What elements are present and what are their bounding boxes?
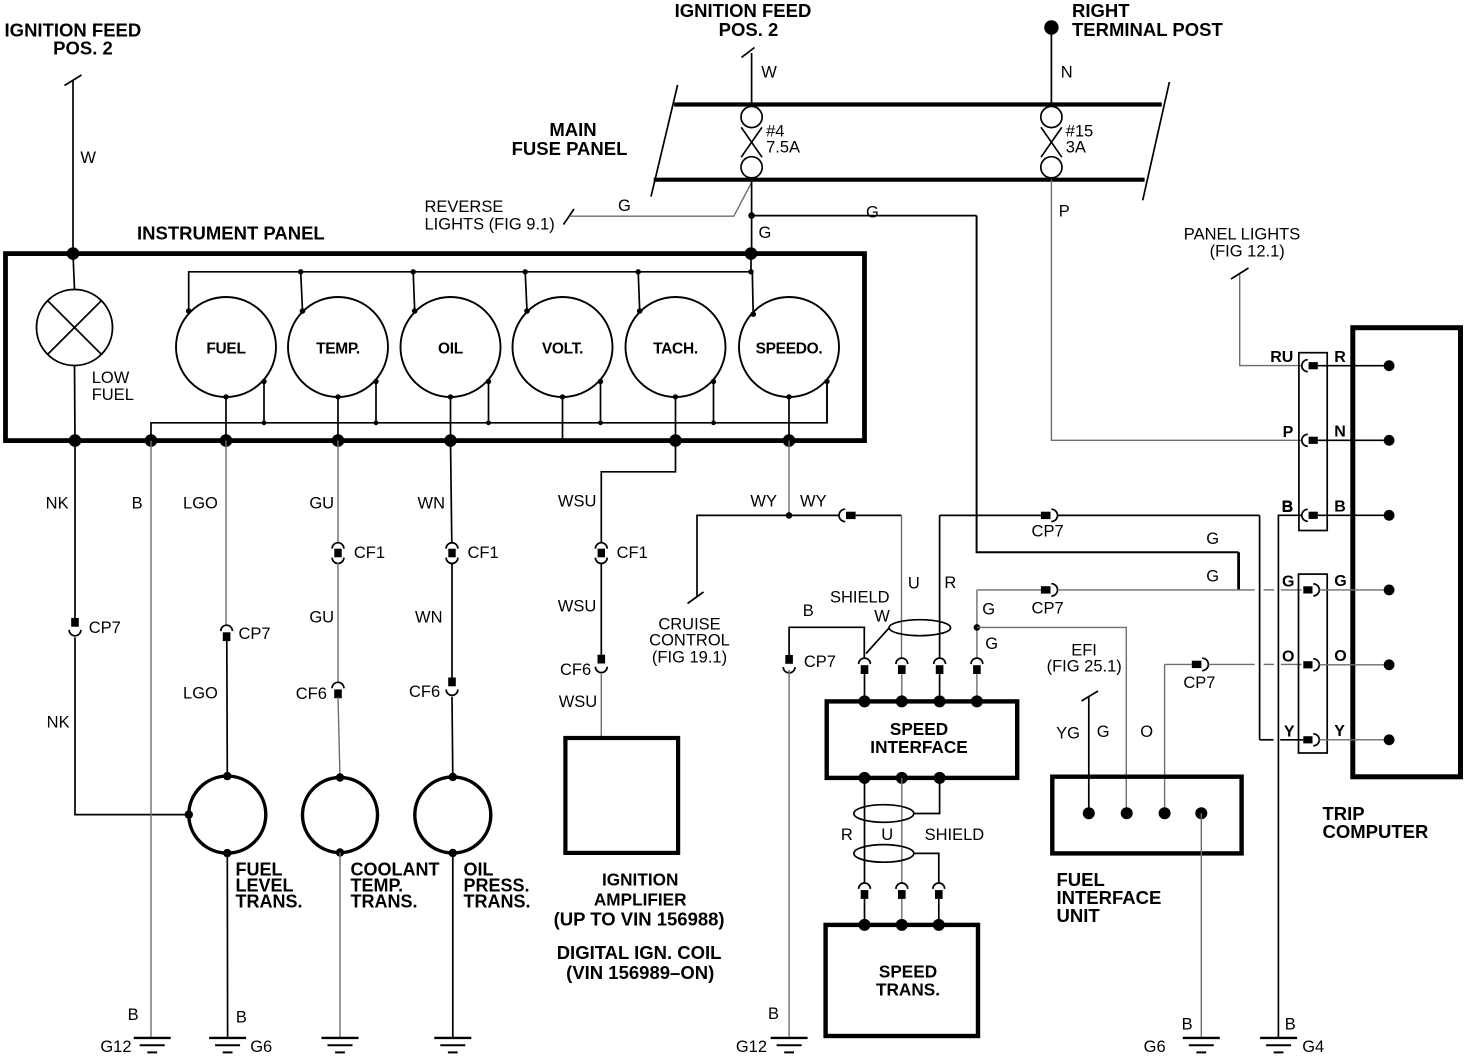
svg-text:TEMP.: TEMP. [316,340,360,357]
connector Y/Y row [1303,736,1312,743]
wire WY to speed interface U [856,514,902,516]
svg-text:U: U [881,826,893,844]
svg-text:PANEL LIGHTS: PANEL LIGHTS [1184,225,1300,243]
svg-text:SHIELD: SHIELD [830,588,890,606]
svg-text:B: B [1334,499,1346,516]
wire W shield drain [866,628,889,654]
oil press transducer pins [449,773,457,781]
wire WY speedo down [788,441,790,516]
box FUEL INTERFACE UNIT [1052,777,1241,854]
connector speed trans pin 2 [896,883,908,889]
wire G return to speed interface [977,589,1041,591]
svg-text:(FIG 25.1): (FIG 25.1) [1047,657,1122,675]
connector block upper (RU P B) [1299,353,1327,531]
svg-text:SPEED: SPEED [879,961,937,981]
svg-text:CP7: CP7 [1183,674,1215,692]
ground (oil press) [434,1037,471,1039]
connector CP7 on WY [789,514,839,516]
wire B fuel interface to ground G6 [1200,813,1202,1037]
connector CF6 on GU [332,682,344,688]
svg-text:B: B [236,1009,247,1027]
connector P/N row [1302,434,1308,446]
svg-text:U: U [908,575,920,593]
wire G down to junction [976,590,978,658]
wires connectors to speed trans pins [864,899,866,925]
connector CP7 on B [785,655,793,664]
svg-text:G12: G12 [736,1038,767,1056]
fuel level transducer pins [223,772,231,780]
gauge OIL [401,297,501,397]
connector pin 1 speed interface [859,658,871,664]
svg-text:B: B [1282,499,1294,516]
connector RU/R row [1302,360,1308,372]
wire lamp bottom to panel bus [74,366,77,441]
svg-text:FUEL: FUEL [206,340,245,357]
svg-text:CF6: CF6 [296,685,327,703]
svg-text:TACH.: TACH. [653,340,698,357]
box IGNITION AMPLIFIER [565,738,678,853]
wire W to fuse #4 [751,53,753,105]
svg-text:G6: G6 [1144,1038,1166,1056]
svg-text:POS. 2: POS. 2 [53,38,113,59]
gauge FUEL [176,297,276,397]
wire oil press transducer to ground [452,853,454,1037]
svg-text:LGO: LGO [183,494,218,512]
junction on G below fuse #4 [748,212,755,219]
svg-text:WSU: WSU [558,493,597,511]
wire shield pin 3 to ellipse [914,778,940,814]
svg-text:LOW: LOW [92,369,130,387]
wire B panel to ground G12 [150,441,152,1037]
fuel interface unit pins [1083,807,1095,819]
wire B trip computer to ground G4 [1278,515,1301,1037]
ground G12 (left) [134,1037,171,1039]
fuse #15 3A [1041,106,1062,177]
svg-text:DIGITAL IGN. COIL: DIGITAL IGN. COIL [557,942,722,963]
svg-text:B: B [132,494,143,512]
svg-text:B: B [1285,1016,1296,1034]
gauge bottom pins [223,394,228,399]
svg-text:(FIG 12.1): (FIG 12.1) [1210,243,1285,261]
speed interface bottom pins [859,772,871,784]
shield ellipse (mid) [854,805,914,823]
wire LGO fuel gauge sender [225,441,227,626]
lamp LOW FUEL [37,290,113,366]
svg-text:OIL: OIL [438,340,463,357]
wire R speed interface to trip computer Y [939,515,941,658]
wire LGO to transducer [226,640,229,776]
svg-text:NK: NK [47,714,70,732]
shield ellipse (lower) [854,845,914,863]
wire WN oil pressure sender [451,441,452,543]
gauge TEMP [288,297,388,397]
fuse panel top rail [674,102,1162,106]
svg-text:MAIN: MAIN [549,119,596,140]
ground (coolant temp) [322,1037,359,1039]
wire R to speed trans [864,778,866,883]
junction G split [974,624,981,631]
connector pin 4 speed interface [971,658,983,664]
svg-text:TERMINAL POST: TERMINAL POST [1072,19,1223,40]
svg-text:W: W [80,149,96,167]
gauge SPEEDO [739,297,839,397]
wire U to speed trans [901,778,903,883]
svg-text:CONTROL: CONTROL [649,631,730,649]
connector speed trans pin 3 [933,883,945,889]
off-page tick (ignition feed fuse) [742,48,755,58]
svg-text:WY: WY [800,493,827,511]
svg-text:CP7: CP7 [89,619,121,637]
svg-text:R: R [841,826,853,844]
wire G to reverse lights [571,183,752,216]
wire WN middle [451,563,453,678]
fuse panel bottom rail [654,178,1145,182]
ground G6 (left) [209,1037,246,1039]
svg-text:N: N [1061,64,1073,82]
svg-text:CF1: CF1 [617,544,648,562]
connector CF6 on WN [448,678,456,687]
svg-text:AMPLIFIER: AMPLIFIER [594,889,687,909]
wire B to speed interface [789,627,864,658]
svg-text:B: B [768,1005,779,1023]
svg-text:WN: WN [415,609,443,627]
wire N terminal post to fuse #15 [1050,33,1052,105]
off-page tick (reverse lights) [564,209,575,225]
connector pin 3 speed interface [934,658,946,664]
wire G fuse #4 down to instrument panel [751,180,753,254]
wire WSU tach to ignition amplifier [601,441,675,543]
wire O with crossover breaks [1208,663,1254,665]
wire R continues to Y descent [1058,514,1260,516]
connector CP7 on R wire [1041,512,1051,519]
connector CP7 on NK [71,618,79,627]
wire G branch to fuel interface unit [977,627,1126,813]
gauge feed bus inside panel [189,272,751,311]
junction WY [786,512,793,519]
off-page tick (EFI) [1082,691,1099,701]
off-page tick (panel lights) [1231,268,1249,279]
svg-text:TRANS.: TRANS. [236,892,303,912]
ground G12 (speed trans) [771,1037,808,1039]
wire lamp top feed [73,254,75,290]
connector CF1 on WSU [595,543,607,549]
svg-text:TRANS.: TRANS. [876,979,940,999]
svg-text:REVERSE: REVERSE [425,198,504,216]
svg-text:G: G [985,635,998,653]
wire B to ground G12 right [788,670,790,1037]
svg-text:B: B [128,1006,139,1024]
svg-text:CP7: CP7 [1032,600,1064,618]
wire O fuel interface to connector [1164,664,1166,813]
wire NK to fuel level transducer [75,637,186,814]
svg-text:GU: GU [309,494,334,512]
wire WY to cruise control [697,515,789,597]
svg-text:LGO: LGO [183,685,218,703]
svg-text:G6: G6 [250,1038,272,1056]
wire W ignition feed to instrument panel [72,81,74,254]
wire RU panel lights to connector [1240,275,1302,366]
gauge sender bus inside panel [151,382,827,441]
svg-text:GU: GU [309,609,334,627]
svg-text:CF6: CF6 [560,661,591,679]
connector block lower (G O Y) [1299,574,1328,753]
svg-text:N: N [1334,424,1346,441]
fuse panel left slant [651,85,678,197]
transducer FUEL LEVEL TRANS. [189,776,266,853]
connector CP7 on LGO [221,625,233,631]
svg-text:P: P [1059,203,1070,221]
svg-text:WSU: WSU [558,598,597,616]
wires connectors to speed interface pins [864,674,866,701]
connector B/B row [1302,509,1308,521]
svg-text:7.5A: 7.5A [766,138,800,156]
wire GU to transducer [338,697,340,777]
svg-text:UNIT: UNIT [1057,905,1101,926]
wire G branch right from fuse #4 [752,215,977,217]
gauge TACH [626,297,726,397]
svg-text:G: G [866,204,879,222]
svg-text:VOLT.: VOLT. [542,340,583,357]
junction G feed on panel edge [745,247,758,260]
svg-text:WN: WN [418,494,446,512]
svg-text:FUEL: FUEL [92,386,134,404]
svg-text:IGNITION: IGNITION [602,869,678,889]
svg-text:IGNITION FEED: IGNITION FEED [675,0,812,21]
gauge feed drop arrows [301,272,303,311]
svg-text:RIGHT: RIGHT [1072,0,1130,21]
ground G6 (fuel interface) [1183,1037,1220,1039]
coolant temp transducer pins [336,773,344,781]
svg-text:COMPUTER: COMPUTER [1323,821,1429,842]
svg-text:G: G [982,601,995,619]
svg-text:POS. 2: POS. 2 [719,19,779,40]
wire NK low fuel sender [74,441,76,618]
speed trans top pins [859,919,871,931]
svg-text:LIGHTS (FIG 9.1): LIGHTS (FIG 9.1) [425,216,555,234]
svg-text:P: P [1283,424,1294,441]
connector CF6 on WSU [598,655,606,664]
transducer COOLANT TEMP TRANS. [303,778,378,853]
svg-text:FUSE PANEL: FUSE PANEL [512,138,628,159]
box SPEED INTERFACE [827,701,1018,778]
svg-text:CP7: CP7 [1032,523,1064,541]
svg-text:G: G [1206,568,1219,586]
shield ellipse (upper) [889,620,950,636]
wire YG efi to fuel interface unit [1088,698,1090,814]
wire coolant temp transducer to ground [339,853,341,1037]
svg-text:YG: YG [1056,725,1080,743]
connector CP7 on G wire [1041,586,1051,593]
connector O/O row [1303,661,1312,668]
svg-text:TRANS.: TRANS. [351,892,418,912]
wire G with crossover breaks [1058,589,1255,591]
connector CF1 on GU [332,543,344,549]
wire Y into connector (break at crossing) [1260,739,1274,741]
svg-text:SPEEDO.: SPEEDO. [756,340,823,357]
wire G long run down right side [977,216,1239,553]
svg-text:CP7: CP7 [239,625,271,643]
svg-text:Y: Y [1334,723,1345,740]
svg-text:G: G [1282,573,1294,590]
gauge right pin drops [263,382,265,423]
svg-text:INSTRUMENT PANEL: INSTRUMENT PANEL [137,222,325,243]
wire WSU lower [600,674,602,738]
gauge VOLT [513,297,613,397]
speed interface top pins [859,695,871,707]
svg-text:TRANS.: TRANS. [464,892,531,912]
svg-text:SPEED: SPEED [890,719,948,739]
connector CF1 on WN [446,543,458,549]
wire shield ellipse to speed trans [914,853,939,883]
svg-text:Y: Y [1284,723,1295,740]
connector speed trans pin 1 [859,883,871,889]
wire B fuel level transducer to ground G6 [226,853,228,1037]
svg-text:CF1: CF1 [468,544,499,562]
wire GU middle [337,563,339,683]
fuse panel right slant [1143,82,1170,200]
svg-text:RU: RU [1270,349,1293,366]
ground G4 [1260,1037,1297,1039]
svg-text:O: O [1140,723,1153,741]
wire GU coolant temp sender [337,441,339,543]
connector G/G row [1303,586,1312,593]
svg-text:WSU: WSU [559,693,598,711]
off-page tick (ignition feed left) [65,75,82,86]
wire WN to transducer [451,697,454,777]
svg-text:(VIN 156989–ON): (VIN 156989–ON) [566,962,714,983]
svg-text:SHIELD: SHIELD [925,826,985,844]
svg-text:INTERFACE: INTERFACE [870,737,967,757]
wire WSU middle [600,563,602,655]
instrument panel box [6,254,865,441]
svg-text:NK: NK [46,494,69,512]
off-page tick (cruise control) [688,592,704,604]
svg-text:(FIG 19.1): (FIG 19.1) [652,648,727,666]
svg-text:B: B [1182,1016,1193,1034]
connector CP7 on O wire [1192,661,1202,668]
svg-text:R: R [944,574,956,592]
node RIGHT TERMINAL POST [1044,20,1058,34]
svg-text:CP7: CP7 [804,653,836,671]
svg-text:O: O [1282,648,1294,665]
svg-text:W: W [761,64,777,82]
svg-text:G12: G12 [100,1038,131,1056]
svg-text:W: W [874,608,890,626]
svg-text:(UP TO VIN 156988): (UP TO VIN 156988) [554,908,725,929]
fuse #4 7.5A [741,106,762,177]
junctions on panel bottom edge [69,434,82,447]
wire P fuse #15 to trip computer connector [1051,180,1301,441]
svg-text:G4: G4 [1302,1038,1324,1056]
junction W feed on panel edge [67,247,80,260]
svg-text:B: B [803,602,814,620]
svg-text:O: O [1334,648,1346,665]
svg-text:CF6: CF6 [409,683,440,701]
svg-text:G: G [759,224,772,242]
box TRIP COMPUTER [1353,328,1461,777]
svg-text:R: R [1334,349,1346,366]
connector pin 2 speed interface [896,658,908,664]
svg-text:G: G [1097,723,1110,741]
svg-text:3A: 3A [1066,138,1086,156]
svg-text:CF1: CF1 [354,544,385,562]
transducer OIL PRESS TRANS. [415,777,491,853]
box SPEED TRANS. [826,925,978,1036]
svg-text:WY: WY [750,493,777,511]
svg-text:G: G [1206,530,1219,548]
svg-text:G: G [1334,573,1346,590]
svg-text:G: G [618,197,631,215]
